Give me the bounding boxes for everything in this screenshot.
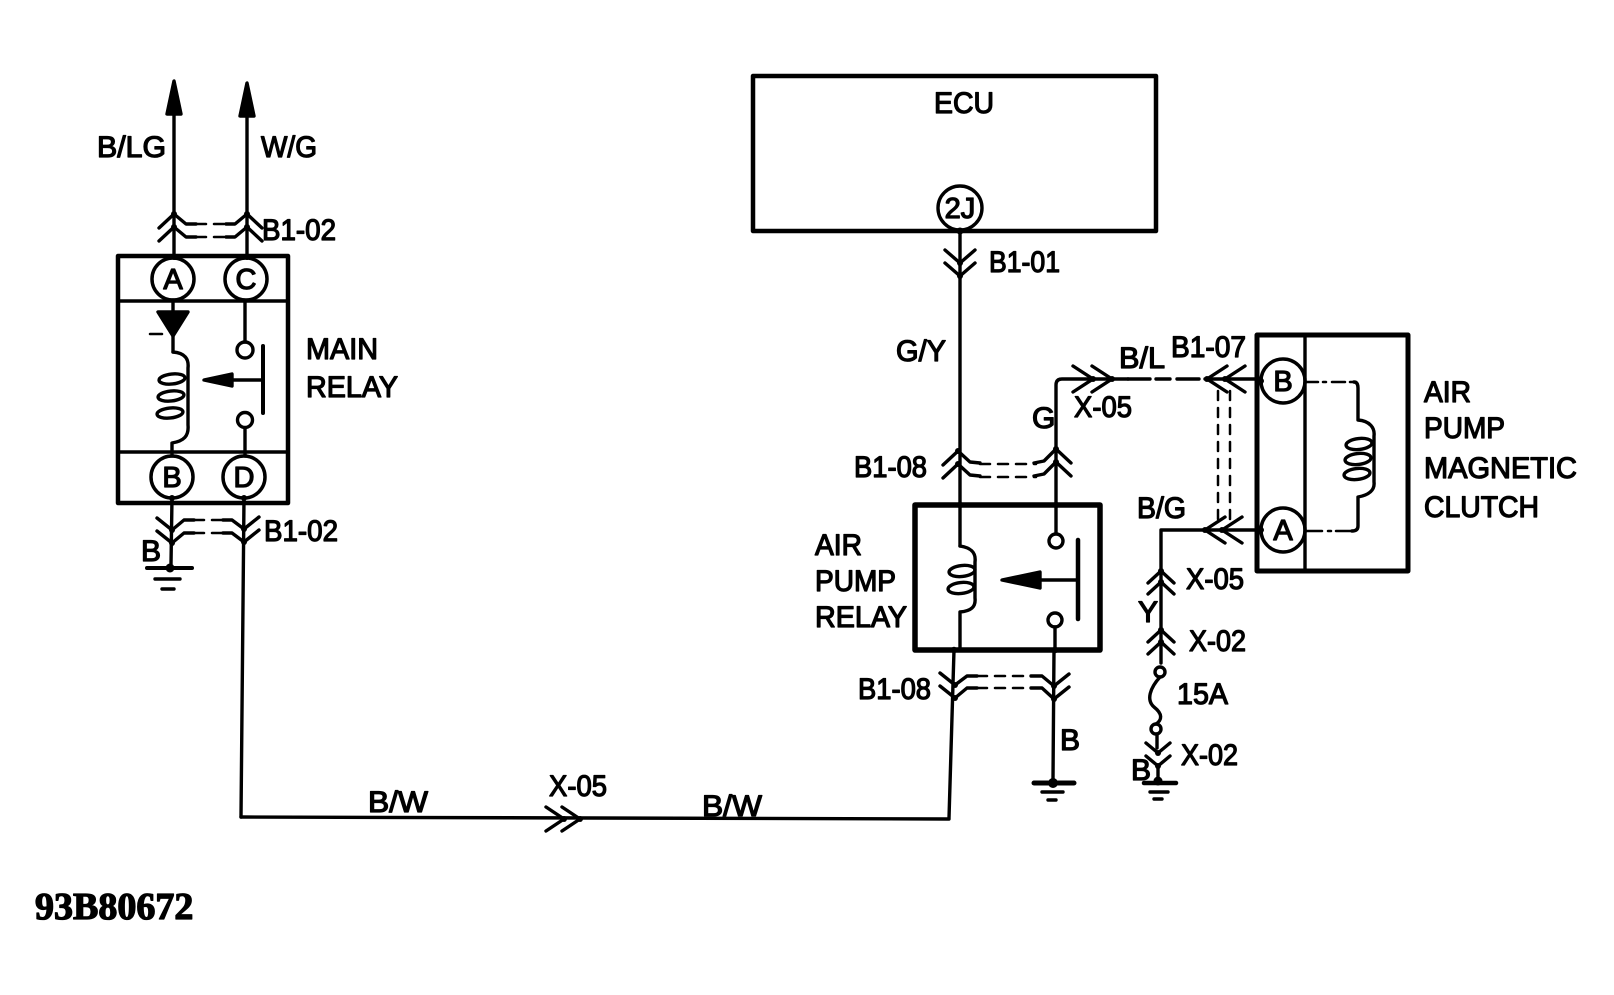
ECU box — [753, 76, 1156, 231]
wire G/Y from ECU 2J down to air pump relay coil — [958, 230, 961, 546]
svg-text:X-05: X-05 — [1186, 563, 1244, 596]
main relay pin D — [223, 456, 265, 498]
svg-text:X-02: X-02 — [1189, 625, 1246, 658]
wire B/LG up-arrow from main relay pin A — [167, 81, 181, 260]
svg-text:AIR: AIR — [815, 529, 862, 562]
svg-text:C: C — [236, 264, 257, 296]
main relay pin B — [151, 456, 193, 498]
svg-text:CLUTCH: CLUTCH — [1424, 491, 1539, 524]
ECU pin 2J — [938, 186, 982, 230]
wire bottom B/W run — [241, 817, 949, 819]
ground G3 — [1144, 777, 1176, 800]
svg-text:G: G — [1032, 402, 1055, 435]
svg-text:X-02: X-02 — [1181, 739, 1238, 772]
connector B1-07 (lower half, on B/G wire) — [1202, 517, 1242, 543]
svg-text:PUMP: PUMP — [1424, 412, 1505, 445]
svg-text:B/LG: B/LG — [97, 131, 166, 164]
svg-text:B: B — [162, 462, 181, 494]
main relay pin C — [225, 258, 267, 300]
svg-text:B1-08: B1-08 — [858, 673, 931, 706]
connector B1-08 (bottom, left half) — [940, 673, 1031, 701]
svg-text:B1-08: B1-08 — [854, 451, 927, 484]
connector B1-07 (upper half, on B/L wire) — [1204, 366, 1245, 519]
svg-text:A: A — [163, 264, 183, 296]
svg-text:A: A — [1273, 515, 1293, 547]
svg-text:G/Y: G/Y — [896, 335, 946, 368]
connector B1-08 (top, right half on G wire) — [1034, 446, 1071, 476]
clutch pin A — [1261, 508, 1305, 552]
connector X-02 upper — [1148, 627, 1174, 654]
connector B1-02 (bottom, left half on pin B wire) — [157, 495, 228, 564]
svg-text:B1-02: B1-02 — [264, 515, 338, 548]
svg-text:X-05: X-05 — [1074, 391, 1132, 424]
svg-text:15A: 15A — [1177, 678, 1228, 711]
wire G from air pump relay up and right (B/L) to clutch pin B — [1056, 379, 1128, 505]
wire from relay coil down to B/W run — [949, 650, 954, 818]
main relay pin A — [152, 258, 194, 300]
connector X-05 on B/W wire — [546, 807, 583, 831]
main relay coil L — [157, 352, 189, 456]
air pump relay box — [915, 505, 1100, 650]
clutch pin B — [1261, 359, 1305, 403]
svg-text:93B80672: 93B80672 — [35, 886, 193, 928]
connector B1-02 (bottom, right half on pin D wire) — [223, 517, 259, 545]
svg-text:B/W: B/W — [702, 790, 763, 823]
connector B1-01 — [945, 250, 975, 279]
air pump relay coil — [947, 546, 975, 650]
svg-text:AIR: AIR — [1424, 376, 1471, 409]
svg-text:B/W: B/W — [368, 786, 429, 819]
main relay U1 box — [118, 256, 288, 503]
fuse F1 15A — [1150, 667, 1165, 748]
svg-text:PUMP: PUMP — [815, 565, 896, 598]
svg-text:D: D — [234, 462, 255, 494]
wire B/G from clutch pin A to fuse chain — [1161, 530, 1261, 663]
svg-text:X-05: X-05 — [549, 770, 607, 803]
svg-text:B1-07: B1-07 — [1171, 331, 1246, 364]
connector B1-02 (top, left half on B/LG wire) — [159, 211, 230, 241]
svg-text:B: B — [141, 535, 161, 568]
svg-text:ECU: ECU — [934, 87, 994, 120]
connector B1-02 (top, right half on W/G wire) — [226, 211, 262, 241]
connector B1-08 (top, left half on G/Y wire) — [943, 448, 1036, 478]
connector X-05 on B/L wire — [1073, 366, 1115, 392]
svg-text:2J: 2J — [945, 193, 976, 225]
connector X-05 on Y wire — [1148, 568, 1174, 594]
svg-text:B/L: B/L — [1119, 342, 1165, 375]
main relay switch contact — [204, 301, 263, 456]
svg-text:RELAY: RELAY — [815, 601, 907, 634]
air pump relay switch contact — [1002, 502, 1078, 653]
svg-text:RELAY: RELAY — [306, 371, 398, 404]
clutch coil wiring — [1258, 378, 1374, 533]
wire from relay switch down to ground — [1053, 650, 1054, 779]
svg-text:Y: Y — [1138, 596, 1158, 629]
ground G1 — [147, 564, 192, 590]
svg-text:B: B — [1273, 366, 1292, 398]
svg-text:W/G: W/G — [261, 131, 317, 164]
ground G2 — [1034, 778, 1074, 800]
svg-text:B1-01: B1-01 — [989, 246, 1060, 279]
connector X-02 lower — [1146, 743, 1170, 779]
svg-text:MAIN: MAIN — [306, 333, 378, 366]
main relay diode — [150, 300, 188, 352]
svg-text:B1-02: B1-02 — [262, 214, 336, 247]
wire from pin D down to bottom run — [241, 498, 244, 817]
svg-text:B: B — [1060, 724, 1080, 757]
connector B1-08 (bottom, right half) — [1031, 674, 1069, 702]
svg-text:B/G: B/G — [1137, 492, 1186, 525]
svg-text:MAGNETIC: MAGNETIC — [1424, 452, 1577, 485]
air pump magnetic clutch box — [1257, 335, 1408, 571]
wire W/G up-arrow from main relay pin C — [240, 83, 254, 260]
